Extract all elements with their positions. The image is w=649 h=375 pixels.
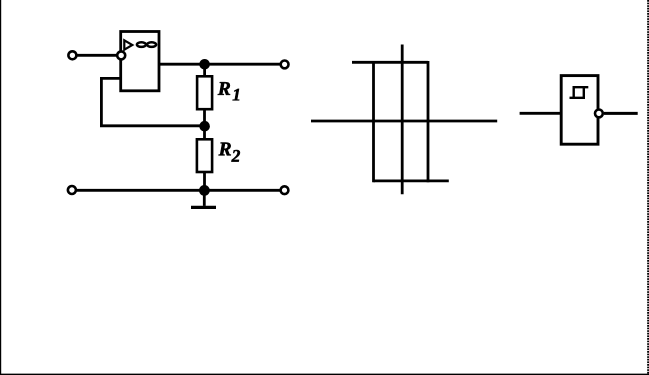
schmitt trigger U2 box	[561, 76, 598, 145]
right bottom terminal	[281, 186, 289, 194]
node C junction dot	[199, 185, 210, 196]
resistor R1	[197, 76, 212, 109]
ground bar	[191, 206, 216, 209]
hysteresis left threshold line	[372, 61, 375, 182]
wire R2 to node C	[203, 172, 206, 190]
op-amp infinity mark	[137, 42, 156, 47]
schmitt hysteresis glyph	[570, 87, 589, 98]
label R2	[219, 143, 240, 162]
wire R1 to node B	[203, 109, 206, 126]
wire op-amp output	[159, 63, 281, 66]
hysteresis graph horizontal axis	[311, 120, 497, 123]
wire junction A to R1	[203, 64, 206, 78]
wire feedback	[101, 78, 204, 125]
node A junction dot	[199, 59, 210, 70]
page right dashed border	[647, 0, 649, 375]
hysteresis top level line	[352, 61, 428, 64]
output terminal	[281, 61, 289, 69]
resistor R2	[197, 139, 212, 172]
hysteresis graph vertical axis	[401, 45, 404, 195]
schmitt input wire	[520, 112, 561, 115]
wire node B to R2	[203, 126, 206, 140]
input bubble	[117, 51, 125, 59]
op-amp triangle mark	[124, 40, 132, 49]
hysteresis bottom level line	[374, 179, 449, 182]
left bottom terminal	[68, 186, 76, 194]
schmitt output bubble	[595, 110, 603, 118]
op-amp U1 box	[121, 32, 159, 91]
label R1	[218, 82, 239, 100]
ground stub	[203, 190, 206, 206]
hysteresis right threshold line	[427, 61, 430, 182]
wire input to bubble	[77, 54, 117, 57]
node B junction dot	[199, 121, 210, 132]
input terminal	[68, 51, 76, 59]
page left border	[0, 0, 2, 375]
page bottom border	[0, 373, 649, 375]
schmitt output wire	[604, 112, 638, 115]
wire bottom rail	[77, 189, 281, 192]
